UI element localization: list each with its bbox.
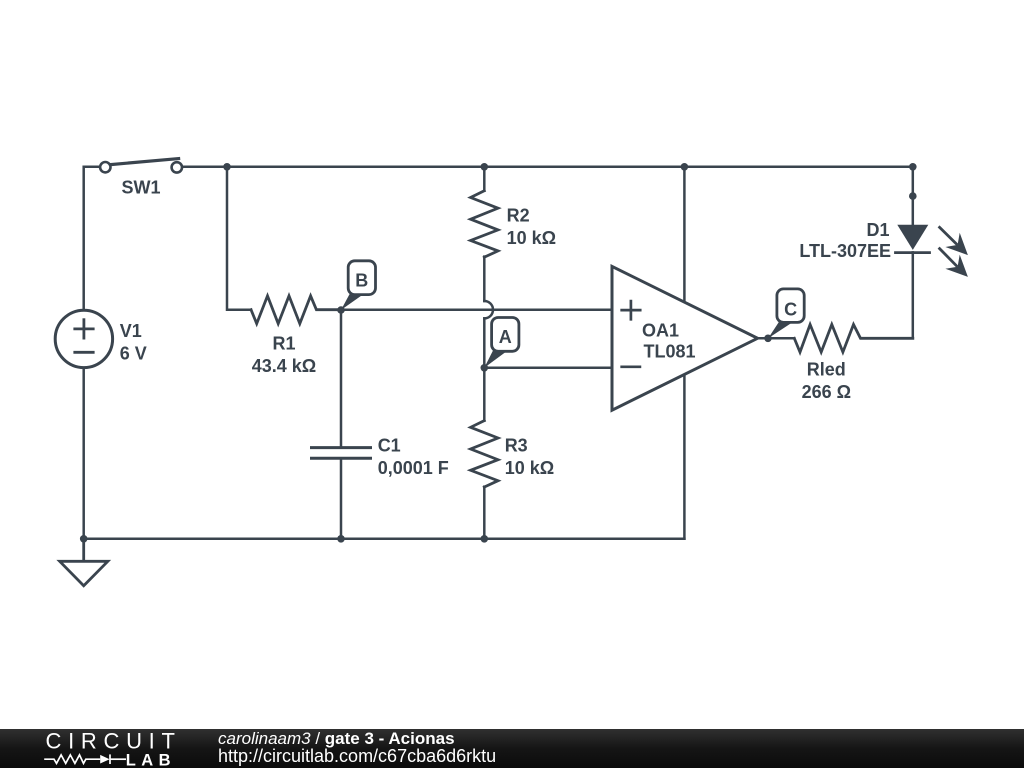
wire op-amp V− supply (triangle down to bottom rail corner) <box>683 375 686 539</box>
wire node B down to C1 <box>340 310 343 448</box>
wire LED cathode down and left to Rled <box>912 252 915 338</box>
switch SW1 <box>100 159 182 173</box>
LED D1 <box>896 225 930 253</box>
resistor R3 <box>471 368 498 539</box>
ground symbol <box>60 539 108 586</box>
svg-text:TL081: TL081 <box>644 342 696 362</box>
node junction dot (top rail / V+ wire) <box>681 163 689 171</box>
wire node A to op-amp − input <box>484 367 612 370</box>
wire C1 to bottom rail <box>340 458 343 539</box>
svg-text:C: C <box>784 299 797 319</box>
resistor R1 <box>251 296 341 324</box>
svg-text:10 kΩ: 10 kΩ <box>507 228 556 248</box>
wire bottom rail (ground net) <box>84 538 685 541</box>
resistor Rled <box>794 325 913 353</box>
svg-text:A: A <box>499 327 512 347</box>
node junction dot (ground / V1 / bottom rail) <box>80 535 88 543</box>
node B flag label <box>341 261 376 310</box>
svg-text:OA1: OA1 <box>642 320 679 340</box>
wire hop to node A <box>483 318 486 367</box>
wire from top rail down to R1 <box>227 167 251 310</box>
op-amp OA1 triangle <box>612 266 758 410</box>
svg-text:6 V: 6 V <box>120 343 147 363</box>
svg-text:CIRCUIT: CIRCUIT <box>46 729 182 753</box>
svg-text:R2: R2 <box>507 206 530 226</box>
LED D1 emission arrows <box>940 227 968 277</box>
svg-text:Rled: Rled <box>807 360 846 380</box>
node B junction dot <box>337 306 345 314</box>
node A junction dot <box>481 364 489 372</box>
svg-text:LAB: LAB <box>126 752 176 768</box>
wire top rail corner down to LED anode <box>912 167 915 225</box>
node junction dot (R3 / bottom rail) <box>481 535 489 543</box>
svg-text:R1: R1 <box>272 334 295 354</box>
svg-text:43.4 kΩ: 43.4 kΩ <box>252 356 316 376</box>
op-amp − input marking <box>622 365 640 368</box>
resistor R2 <box>471 167 498 257</box>
wire op-amp V+ supply (top rail down to triangle) <box>683 167 686 302</box>
node junction dot (top rail / R1 branch) <box>223 163 231 171</box>
node C junction dot <box>764 335 772 343</box>
voltage source V1 <box>55 310 112 367</box>
wire hop (crossover arc) <box>484 301 493 318</box>
node junction dot (top right corner) <box>909 163 917 171</box>
wire node B to op-amp + input <box>341 308 612 311</box>
node junction dot (LED anode stub) <box>909 192 917 200</box>
CircuitLab logo <box>0 729 200 768</box>
svg-text:D1: D1 <box>866 220 889 240</box>
capacitor C1 <box>312 448 371 459</box>
footer url text <box>218 746 496 767</box>
svg-text:0,0001 F: 0,0001 F <box>378 458 449 478</box>
svg-text:10 kΩ: 10 kΩ <box>505 458 554 478</box>
svg-text:B: B <box>355 270 368 290</box>
wire R2 to hop <box>483 257 486 301</box>
wire left rail lower (V1 bottom to ground node) <box>82 368 85 539</box>
svg-text:R3: R3 <box>505 435 528 455</box>
svg-text:SW1: SW1 <box>122 177 161 197</box>
svg-text:LTL-307EE: LTL-307EE <box>799 241 891 261</box>
node C flag label <box>768 289 804 338</box>
footer bar <box>0 729 1024 768</box>
svg-text:C1: C1 <box>378 435 401 455</box>
node junction dot (top rail / R2) <box>481 163 489 171</box>
footer title text <box>218 729 455 749</box>
node A flag label <box>484 318 519 368</box>
wire op-amp output to Rled <box>758 337 795 340</box>
wire left rail upper (top corner to V1 top) <box>84 167 100 310</box>
svg-text:266 Ω: 266 Ω <box>802 382 851 402</box>
wire top rail <box>182 166 913 169</box>
svg-text:V1: V1 <box>120 321 142 341</box>
node junction dot (C1 / bottom rail) <box>337 535 345 543</box>
op-amp + input marking <box>622 301 641 319</box>
